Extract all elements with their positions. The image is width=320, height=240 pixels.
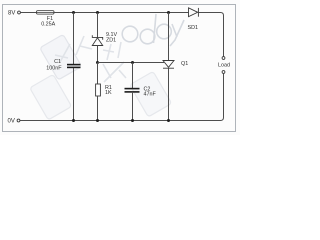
- svg-text:ZD1: ZD1: [106, 38, 116, 44]
- svg-text:Load: Load: [218, 62, 230, 68]
- capacitor C1 100nF: [46, 59, 80, 72]
- wire 8V terminal to fuse: [20, 12, 36, 14]
- node gate rail / ZD1-R1: [96, 61, 99, 64]
- wire C1 upper: [73, 13, 75, 65]
- svg-text:0V: 0V: [8, 118, 15, 124]
- node top rail / C1: [72, 11, 75, 14]
- terminal Load lower: [222, 71, 225, 74]
- wire ZD1 upper: [97, 13, 99, 38]
- zener diode ZD1 9.1V: [92, 32, 117, 46]
- node top rail / ZD1: [96, 11, 99, 14]
- node bottom rail / Q1: [167, 119, 170, 122]
- wire R1 lower: [97, 96, 99, 121]
- wire R1 upper: [97, 63, 99, 85]
- wire Q1 cathode: [168, 68, 170, 120]
- wire C2 upper: [132, 63, 134, 90]
- svg-text:8V: 8V: [8, 11, 15, 17]
- fuse F1 0.25A: [37, 11, 56, 28]
- svg-text:0.25A: 0.25A: [41, 22, 55, 28]
- svg-text:SD1: SD1: [188, 25, 199, 31]
- capacitor C2 47nF: [125, 86, 157, 97]
- node top rail / Q1: [167, 11, 170, 14]
- node bottom rail / R1: [96, 119, 99, 122]
- thyristor Q1: [163, 61, 188, 69]
- svg-text:47nF: 47nF: [144, 92, 157, 98]
- wire fuse to SD1 (top rail): [54, 12, 189, 14]
- diode SD1: [188, 8, 199, 31]
- wire load lower to bottom rail: [20, 73, 224, 120]
- svg-text:100nF: 100nF: [46, 66, 62, 72]
- wire gate rail to Q1 gate: [98, 62, 165, 64]
- svg-text:Q1: Q1: [181, 61, 188, 67]
- node bottom rail / C2: [131, 119, 134, 122]
- resistor R1 1K: [96, 84, 112, 96]
- terminal 0V: [8, 118, 20, 124]
- node gate rail / C2: [131, 61, 134, 64]
- terminal 8V: [8, 11, 20, 17]
- terminal Load upper: [222, 57, 225, 60]
- wire C1 lower: [73, 68, 75, 121]
- wire Q1 anode: [168, 13, 170, 61]
- svg-text:C1: C1: [54, 59, 61, 65]
- wire C2 lower: [132, 92, 134, 121]
- node bottom rail / C1: [72, 119, 75, 122]
- wire ZD1 to gate node: [97, 46, 99, 63]
- wire SD1 to load (top right corner): [198, 13, 223, 57]
- svg-text:1K: 1K: [105, 90, 112, 96]
